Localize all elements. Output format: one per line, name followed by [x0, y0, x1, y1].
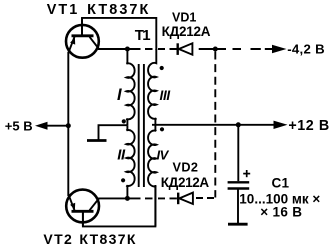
wire dashed winding I top to VD1: [129, 48, 177, 50]
diode VD2: [178, 193, 193, 205]
svg-text:+5 В: +5 В: [5, 118, 33, 133]
node C1 junction: [236, 122, 241, 127]
transformer T1 winding I: [126, 49, 134, 125]
node VD1 output junction: [213, 47, 218, 52]
svg-text:С1: С1: [272, 175, 290, 190]
svg-text:VD2: VD2: [173, 161, 199, 175]
winding III polarity dot: [160, 66, 164, 70]
svg-text:КД212А: КД212А: [162, 24, 211, 39]
wire VD1 to junction: [192, 48, 273, 50]
ground: [99, 125, 128, 140]
transformer T1 winding III: [148, 49, 156, 125]
svg-text:Т1: Т1: [135, 27, 150, 44]
svg-text:VD1: VD1: [172, 11, 196, 25]
wire -4.2V arrow head: [272, 45, 287, 53]
transformer core: [138, 64, 140, 187]
svg-text:IV: IV: [157, 148, 170, 163]
wire dashed VD2 to dashed vertical: [196, 197, 216, 199]
svg-text:-4,2 В: -4,2 В: [287, 42, 325, 57]
winding I polarity dot: [122, 119, 126, 123]
svg-text:VT2 КТ837К: VT2 КТ837К: [43, 231, 136, 247]
transformer T1 winding II: [126, 125, 134, 198]
winding II polarity dot: [121, 178, 125, 182]
winding IV polarity dot: [160, 127, 164, 131]
diode VD1: [178, 43, 193, 55]
wire VT2 collector to winding II bottom: [98, 197, 129, 199]
svg-text:I: I: [117, 86, 122, 104]
wire VT1 base to top rail: [82, 18, 156, 50]
svg-text:КД212А: КД212А: [161, 175, 210, 190]
transistor VT1: [66, 18, 99, 58]
svg-text:× 16 В: × 16 В: [260, 204, 302, 219]
wire VT1 collector to winding I top: [98, 48, 129, 50]
transistor VT2: [66, 190, 99, 227]
svg-text:+12 В: +12 В: [288, 118, 329, 134]
node winding II bottom junction: [125, 196, 130, 201]
svg-text:VT1 КТ837К: VT1 КТ837К: [47, 2, 151, 18]
node winding I top junction: [125, 47, 130, 52]
wire C1 bottom ground: [237, 189, 239, 224]
node +5V tap: [66, 123, 71, 128]
wire dashed vertical VD1 junction to VD2: [214, 52, 216, 198]
svg-text:II: II: [117, 148, 126, 164]
wire +5V arrow: [47, 125, 68, 127]
wire +12V from center tap: [152, 124, 275, 126]
svg-text:III: III: [160, 88, 171, 103]
transformer T1 winding IV: [148, 125, 156, 227]
wire left rail (emitters, +5V): [67, 52, 69, 196]
capacitor C1: [228, 125, 251, 189]
wire dashed winding II bottom to VD2: [129, 197, 177, 199]
wire VT2 base to bottom rail to winding IV bottom: [83, 185, 155, 226]
